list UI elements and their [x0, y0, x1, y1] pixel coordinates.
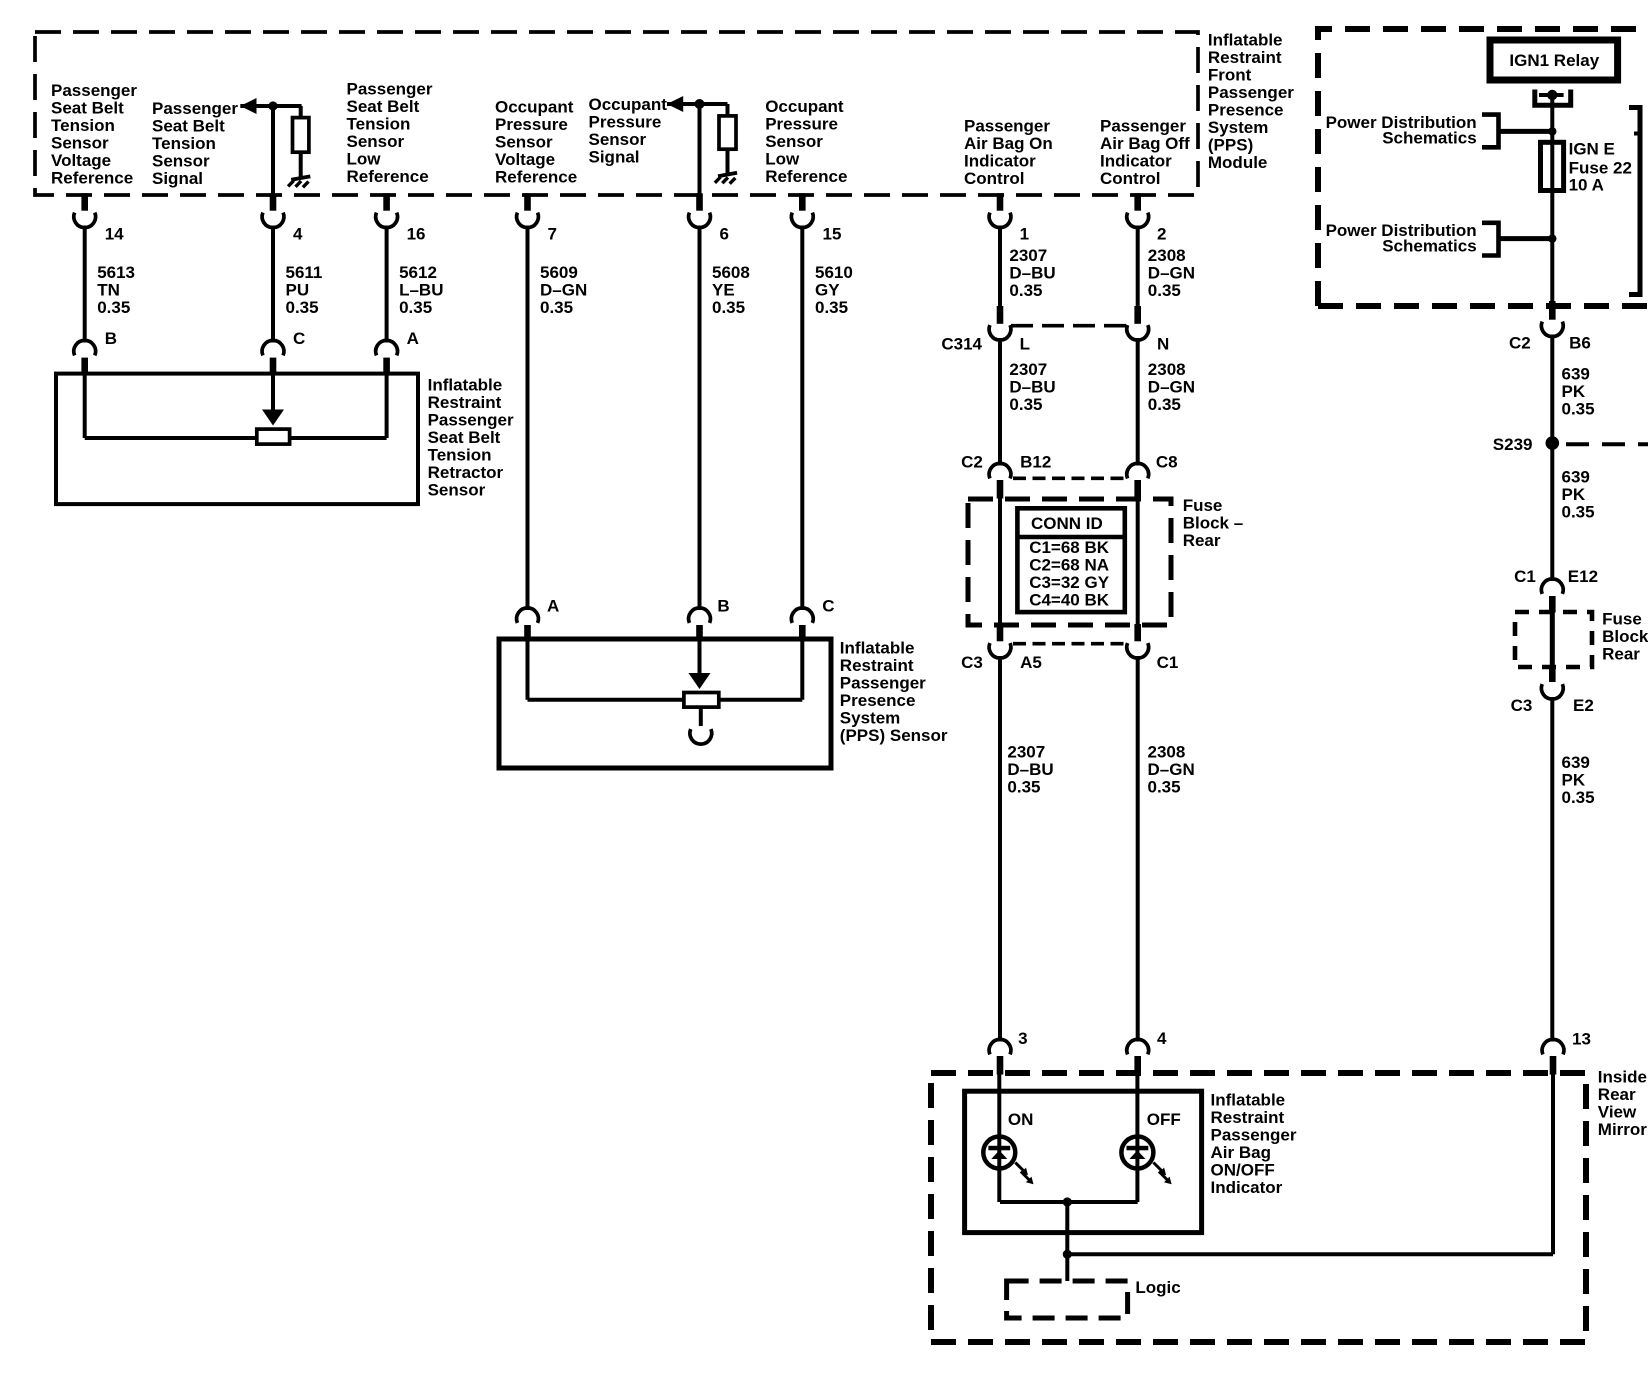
svg-text:Occupant: Occupant: [765, 97, 844, 116]
svg-text:Tension: Tension: [347, 114, 411, 133]
svg-text:Passenger: Passenger: [152, 99, 238, 118]
svg-text:Rear: Rear: [1598, 1085, 1636, 1104]
svg-text:7: 7: [548, 225, 557, 244]
svg-text:Fuse 22: Fuse 22: [1569, 158, 1632, 177]
svg-text:Control: Control: [964, 169, 1024, 188]
svg-text:Rear: Rear: [1602, 644, 1640, 663]
svg-text:1: 1: [1020, 225, 1029, 244]
svg-text:2308: 2308: [1148, 743, 1186, 762]
svg-text:0.35: 0.35: [399, 298, 432, 317]
svg-text:15: 15: [823, 225, 842, 244]
svg-text:Control: Control: [1100, 169, 1160, 188]
svg-text:PK: PK: [1562, 382, 1586, 401]
svg-text:10 A: 10 A: [1569, 176, 1604, 195]
svg-text:E12: E12: [1568, 567, 1598, 586]
svg-text:Voltage: Voltage: [51, 151, 111, 170]
svg-text:Passenger: Passenger: [347, 79, 433, 98]
svg-text:(PPS): (PPS): [1208, 135, 1253, 154]
svg-text:Signal: Signal: [589, 148, 640, 167]
svg-text:C: C: [822, 596, 834, 615]
svg-text:Passenger: Passenger: [964, 117, 1050, 136]
svg-text:0.35: 0.35: [712, 298, 745, 317]
svg-text:2307: 2307: [1009, 360, 1047, 379]
svg-text:Seat Belt: Seat Belt: [51, 99, 124, 118]
svg-text:Signal: Signal: [152, 169, 203, 188]
svg-text:Reference: Reference: [765, 167, 847, 186]
svg-text:IGN1 Relay: IGN1 Relay: [1509, 51, 1599, 70]
svg-text:Indicator: Indicator: [964, 152, 1036, 171]
svg-text:Front: Front: [1208, 65, 1252, 84]
svg-text:IGN E: IGN E: [1569, 140, 1615, 159]
svg-text:Fuse: Fuse: [1602, 609, 1642, 628]
svg-text:Mirror: Mirror: [1598, 1120, 1648, 1139]
svg-text:2308: 2308: [1148, 246, 1186, 265]
svg-text:Presence: Presence: [840, 691, 916, 710]
svg-text:Restraint: Restraint: [428, 393, 502, 412]
svg-text:Restraint: Restraint: [840, 656, 914, 675]
svg-text:Schematics: Schematics: [1382, 129, 1477, 148]
svg-text:D–GN: D–GN: [1148, 377, 1195, 396]
svg-text:14: 14: [105, 225, 124, 244]
svg-text:Inflatable: Inflatable: [1211, 1091, 1286, 1110]
svg-text:Passenger: Passenger: [1211, 1126, 1297, 1145]
svg-text:Module: Module: [1208, 153, 1268, 172]
svg-text:C4=40 BK: C4=40 BK: [1029, 591, 1110, 610]
svg-text:0.35: 0.35: [1009, 281, 1042, 300]
svg-text:0.35: 0.35: [1562, 502, 1595, 521]
svg-text:Restraint: Restraint: [1211, 1108, 1285, 1127]
svg-text:Pressure: Pressure: [589, 113, 662, 132]
svg-text:Passenger: Passenger: [1100, 117, 1186, 136]
svg-text:Pressure: Pressure: [765, 115, 838, 134]
svg-text:C3=32 GY: C3=32 GY: [1029, 573, 1110, 592]
svg-text:(PPS) Sensor: (PPS) Sensor: [840, 726, 948, 745]
svg-text:Voltage: Voltage: [495, 150, 555, 169]
svg-text:Sensor: Sensor: [152, 152, 210, 171]
svg-text:0.35: 0.35: [540, 298, 573, 317]
svg-text:A5: A5: [1020, 653, 1042, 672]
svg-text:Passenger: Passenger: [51, 81, 137, 100]
svg-text:B6: B6: [1569, 334, 1591, 353]
svg-text:0.35: 0.35: [97, 298, 130, 317]
svg-text:E2: E2: [1573, 696, 1594, 715]
svg-text:YE: YE: [712, 281, 735, 300]
svg-text:Air Bag: Air Bag: [1211, 1143, 1271, 1162]
svg-text:Rear: Rear: [1183, 531, 1221, 550]
svg-text:Sensor: Sensor: [347, 132, 405, 151]
svg-text:GY: GY: [815, 281, 840, 300]
svg-text:Passenger: Passenger: [1208, 83, 1294, 102]
svg-text:0.35: 0.35: [286, 298, 319, 317]
svg-text:Pressure: Pressure: [495, 115, 568, 134]
svg-text:0.35: 0.35: [1148, 778, 1181, 797]
svg-text:C8: C8: [1156, 453, 1178, 472]
svg-text:ON: ON: [1008, 1110, 1034, 1129]
svg-text:0.35: 0.35: [1007, 778, 1040, 797]
svg-text:PK: PK: [1562, 771, 1586, 790]
svg-text:Inside: Inside: [1598, 1067, 1647, 1086]
svg-text:Sensor: Sensor: [51, 134, 109, 153]
svg-text:Tension: Tension: [152, 134, 216, 153]
svg-text:Reference: Reference: [51, 169, 133, 188]
svg-text:C2: C2: [961, 453, 983, 472]
svg-text:Sensor: Sensor: [765, 132, 823, 151]
svg-text:CONN ID: CONN ID: [1031, 514, 1103, 533]
svg-text:C3: C3: [961, 653, 983, 672]
svg-text:ON/OFF: ON/OFF: [1211, 1161, 1275, 1180]
svg-text:D–GN: D–GN: [1148, 760, 1195, 779]
svg-text:0.35: 0.35: [1148, 395, 1181, 414]
svg-text:Sensor: Sensor: [589, 130, 647, 149]
svg-text:A: A: [407, 329, 419, 348]
svg-text:Restraint: Restraint: [1208, 48, 1282, 67]
svg-text:4: 4: [1157, 1029, 1167, 1048]
svg-text:L: L: [1020, 334, 1030, 353]
svg-text:Seat Belt: Seat Belt: [152, 117, 225, 136]
svg-text:Fuse: Fuse: [1183, 496, 1223, 515]
svg-text:3: 3: [1018, 1029, 1027, 1048]
svg-text:System: System: [1208, 118, 1268, 137]
svg-text:Seat Belt: Seat Belt: [428, 428, 501, 447]
svg-text:Air Bag On: Air Bag On: [964, 134, 1053, 153]
svg-text:Logic: Logic: [1135, 1278, 1180, 1297]
svg-text:Air Bag Off: Air Bag Off: [1100, 134, 1190, 153]
svg-text:Passenger: Passenger: [840, 674, 926, 693]
svg-text:Inflatable: Inflatable: [1208, 30, 1283, 49]
svg-text:Sensor: Sensor: [495, 133, 553, 152]
svg-text:N: N: [1157, 334, 1169, 353]
svg-text:B: B: [105, 329, 117, 348]
svg-text:Inflatable: Inflatable: [428, 376, 503, 395]
svg-text:A: A: [547, 596, 559, 615]
svg-text:B: B: [717, 596, 729, 615]
svg-text:5611: 5611: [286, 263, 323, 282]
svg-text:16: 16: [407, 225, 426, 244]
svg-text:D–BU: D–BU: [1009, 377, 1055, 396]
svg-text:Presence: Presence: [1208, 100, 1284, 119]
svg-text:Inflatable: Inflatable: [840, 639, 915, 658]
svg-text:0.35: 0.35: [1562, 788, 1595, 807]
svg-text:2308: 2308: [1148, 360, 1186, 379]
svg-text:Block –: Block –: [1183, 514, 1243, 533]
svg-text:Occupant: Occupant: [495, 98, 574, 117]
svg-text:Block: Block: [1602, 627, 1648, 646]
svg-text:5608: 5608: [712, 263, 750, 282]
svg-text:Sensor: Sensor: [428, 481, 486, 500]
svg-text:L–BU: L–BU: [399, 281, 443, 300]
svg-text:C1=68 BK: C1=68 BK: [1029, 538, 1110, 557]
svg-text:OFF: OFF: [1147, 1110, 1181, 1129]
svg-text:6: 6: [720, 225, 729, 244]
svg-text:Tension: Tension: [428, 446, 492, 465]
svg-text:Reference: Reference: [347, 167, 429, 186]
svg-text:639: 639: [1562, 467, 1590, 486]
svg-text:0.35: 0.35: [815, 298, 848, 317]
svg-text:B12: B12: [1020, 453, 1051, 472]
svg-text:Reference: Reference: [495, 168, 577, 187]
svg-text:View: View: [1598, 1102, 1637, 1121]
svg-text:PK: PK: [1562, 485, 1586, 504]
svg-text:Schematics: Schematics: [1382, 237, 1477, 256]
svg-text:TN: TN: [97, 281, 120, 300]
svg-text:4: 4: [293, 225, 303, 244]
svg-text:C2=68 NA: C2=68 NA: [1029, 556, 1109, 575]
svg-text:639: 639: [1562, 364, 1590, 383]
svg-text:C: C: [293, 329, 305, 348]
svg-text:S239: S239: [1493, 435, 1533, 454]
svg-text:639: 639: [1562, 753, 1590, 772]
svg-text:5609: 5609: [540, 263, 578, 282]
svg-text:5613: 5613: [97, 263, 135, 282]
svg-text:C314: C314: [941, 334, 982, 353]
svg-text:D–GN: D–GN: [1148, 263, 1195, 282]
svg-text:Indicator: Indicator: [1211, 1178, 1283, 1197]
svg-text:C1: C1: [1157, 653, 1179, 672]
svg-text:C3: C3: [1511, 696, 1533, 715]
svg-text:13: 13: [1572, 1029, 1591, 1048]
svg-text:Indicator: Indicator: [1100, 152, 1172, 171]
svg-text:C1: C1: [1514, 567, 1536, 586]
svg-text:Passenger: Passenger: [428, 411, 514, 430]
svg-text:0.35: 0.35: [1148, 281, 1181, 300]
svg-text:0.35: 0.35: [1009, 395, 1042, 414]
svg-text:2307: 2307: [1009, 246, 1047, 265]
svg-text:5612: 5612: [399, 263, 437, 282]
svg-text:Retractor: Retractor: [428, 463, 504, 482]
svg-text:Occupant: Occupant: [589, 95, 668, 114]
svg-text:5610: 5610: [815, 263, 853, 282]
svg-text:Seat Belt: Seat Belt: [347, 97, 420, 116]
svg-text:Tension: Tension: [51, 116, 115, 135]
svg-text:Low: Low: [347, 149, 382, 168]
svg-text:Low: Low: [765, 150, 800, 169]
svg-text:D–BU: D–BU: [1007, 760, 1053, 779]
svg-text:System: System: [840, 709, 900, 728]
svg-text:PU: PU: [286, 281, 310, 300]
svg-text:2307: 2307: [1007, 743, 1045, 762]
svg-text:2: 2: [1157, 225, 1166, 244]
svg-text:D–GN: D–GN: [540, 281, 587, 300]
svg-text:D–BU: D–BU: [1009, 263, 1055, 282]
svg-text:C2: C2: [1509, 334, 1531, 353]
svg-text:0.35: 0.35: [1562, 399, 1595, 418]
